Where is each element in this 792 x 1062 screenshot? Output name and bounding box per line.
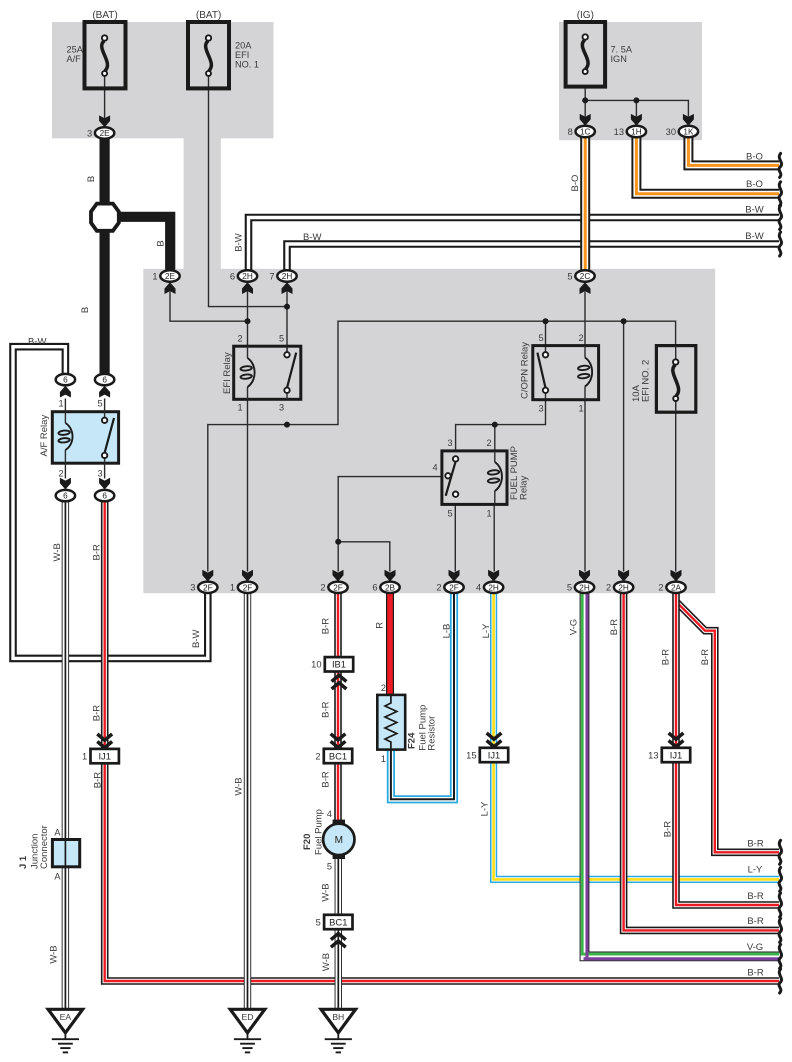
wire R from 6 2B to resistor — [386, 593, 394, 696]
connector A/F relay top-right 6 — [95, 374, 114, 385]
svg-text:B-R: B-R — [747, 839, 764, 850]
junction connector J1 — [18, 825, 80, 881]
wire B-R branch from 2 2A to right edge — [677, 603, 779, 853]
fuse 20A EFI NO. 1 — [188, 10, 259, 88]
junction block 2 BC1 — [315, 749, 352, 763]
svg-text:1: 1 — [58, 399, 63, 409]
svg-text:B-R: B-R — [91, 705, 102, 722]
svg-text:BH: BH — [332, 1012, 344, 1022]
svg-text:NO. 1: NO. 1 — [235, 60, 259, 70]
wire B-R from 2 2F to fuel pump — [334, 593, 342, 821]
svg-text:2H: 2H — [242, 272, 253, 281]
svg-text:1K: 1K — [683, 128, 694, 137]
wire W-B from 1 2F to ground ED — [244, 593, 251, 1009]
junction block 15 IJ1 — [466, 748, 508, 762]
wire V-G from 5 2H to right edge — [582, 593, 779, 959]
svg-text:5: 5 — [447, 509, 452, 519]
svg-text:2: 2 — [237, 334, 242, 344]
svg-text:B-R: B-R — [661, 649, 672, 666]
wire B-R from A-F relay pin 3 to right edge — [105, 502, 779, 982]
svg-text:EFI Relay: EFI Relay — [222, 352, 233, 394]
svg-text:IJ1: IJ1 — [488, 749, 501, 760]
svg-text:3: 3 — [190, 583, 195, 593]
wire B-R from 2 2H to right edge — [624, 593, 779, 930]
svg-text:1: 1 — [486, 509, 491, 519]
connector 2 2F — [436, 582, 463, 593]
svg-text:IJ1: IJ1 — [670, 749, 683, 760]
svg-text:W-B: W-B — [321, 953, 332, 971]
svg-text:2: 2 — [578, 333, 583, 343]
wire break at right edge y=956.4 — [779, 944, 781, 968]
fuse 10A EFI NO. 2 — [631, 346, 696, 413]
wire L-Y from 4 2H to right edge — [494, 593, 779, 879]
svg-text:1: 1 — [381, 754, 386, 764]
svg-text:(BAT): (BAT) — [92, 10, 117, 21]
svg-text:10: 10 — [311, 660, 321, 670]
svg-text:B-W: B-W — [28, 337, 47, 348]
connector A/F relay bottom-right 6 — [95, 490, 114, 501]
wire B from 3 2E to octagon splice — [99, 139, 109, 206]
svg-text:B-W: B-W — [745, 231, 764, 242]
svg-text:EFI NO. 2: EFI NO. 2 — [641, 360, 652, 402]
connector 1 2E — [152, 270, 179, 281]
wire B-O from 8 1C to 5 2C — [580, 137, 590, 270]
svg-text:2C: 2C — [580, 272, 591, 281]
connector 4 2H — [476, 582, 503, 593]
shaded harness area top-left — [52, 22, 274, 138]
svg-text:B-W: B-W — [303, 232, 322, 243]
shaded harness strip — [184, 138, 221, 270]
svg-text:B-R: B-R — [609, 619, 620, 636]
wire fuel pump relay pin 4 to 2 2F and 6 2B — [338, 477, 442, 572]
C/OPN relay — [520, 333, 599, 414]
svg-text:3: 3 — [447, 438, 452, 448]
junction node EFI relay pin3 out — [284, 422, 290, 428]
svg-text:A: A — [54, 828, 61, 838]
svg-text:6: 6 — [63, 492, 68, 501]
junction block 13 IJ1 — [648, 748, 690, 762]
svg-text:IB1: IB1 — [332, 659, 346, 670]
wire 1 2E to EFI relay pin 2 node — [170, 292, 248, 322]
wire B-O from 30 1K to right edge — [688, 137, 779, 165]
svg-text:B: B — [155, 240, 166, 246]
svg-text:L-Y: L-Y — [479, 801, 490, 816]
connector 30 1K — [666, 126, 698, 137]
wire 7 2H to EFI relay pin 5 — [286, 283, 288, 355]
wire break at right edge y=217.5 — [779, 206, 781, 230]
svg-text:V-G: V-G — [569, 619, 580, 635]
A/F relay — [39, 399, 119, 479]
connector 5 2C — [567, 270, 594, 281]
svg-text:W-B: W-B — [52, 543, 63, 561]
junction node 2 2H tap — [621, 318, 627, 324]
svg-text:2H: 2H — [579, 583, 590, 592]
connector 1 2F — [230, 582, 257, 593]
svg-text:3: 3 — [279, 403, 284, 413]
svg-text:5: 5 — [279, 334, 284, 344]
wire break at right edge y=981 — [779, 969, 781, 993]
svg-text:L-B: L-B — [442, 624, 453, 639]
wire C-OPN relay pin 5 stub — [545, 321, 547, 352]
svg-text:(IG): (IG) — [577, 10, 594, 21]
junction block 10 IB1 — [311, 657, 353, 671]
wire EFI relay pin 1 to 1 2F — [247, 399, 249, 571]
svg-text:1C: 1C — [580, 128, 591, 137]
svg-text:2: 2 — [658, 583, 663, 593]
svg-text:2E: 2E — [100, 129, 111, 138]
wire 10A fuse to 2 2A — [675, 401, 677, 572]
svg-text:1: 1 — [152, 271, 157, 281]
junction node fuel pump relay pin2 tap — [492, 422, 498, 428]
svg-text:M: M — [335, 835, 343, 846]
svg-text:V-G: V-G — [747, 942, 763, 953]
wire fuel pump relay pin 5 to 2 2F — [454, 504, 456, 571]
svg-text:7. 5A: 7. 5A — [611, 45, 633, 55]
svg-text:A/F: A/F — [67, 54, 82, 64]
svg-text:3: 3 — [87, 128, 92, 138]
svg-text:2H: 2H — [618, 583, 629, 592]
svg-text:B-R: B-R — [747, 968, 764, 979]
svg-text:C/OPN Relay: C/OPN Relay — [520, 342, 531, 399]
svg-text:B-W: B-W — [745, 205, 764, 216]
svg-text:1: 1 — [82, 752, 87, 762]
svg-text:2: 2 — [320, 583, 325, 593]
svg-text:1: 1 — [237, 403, 242, 413]
wire 6 2H to EFI relay pin 2 — [247, 283, 249, 346]
svg-text:25A: 25A — [67, 45, 84, 55]
junction node EFI relay pin5 feed — [284, 304, 290, 310]
svg-text:B-R: B-R — [700, 649, 711, 666]
svg-text:Connector: Connector — [39, 825, 50, 869]
svg-text:F24: F24 — [407, 732, 418, 749]
wire C-OPN relay pin 3 to fuel pump relay — [456, 393, 546, 451]
wire B-W from 7 2H to right edge — [287, 244, 779, 270]
wire 5 2C through C-OPN relay coil to 5 2H — [584, 292, 586, 572]
svg-text:2F: 2F — [449, 583, 459, 592]
svg-text:2B: 2B — [385, 583, 396, 592]
connector 6 2B — [372, 582, 399, 593]
svg-text:B-O: B-O — [746, 179, 763, 190]
connector 7 2H — [269, 270, 296, 281]
wire fuse 25A to 3 2E — [104, 76, 106, 127]
shaded harness area ECU — [143, 269, 715, 593]
svg-text:B: B — [80, 307, 91, 313]
svg-text:6: 6 — [372, 583, 377, 593]
svg-text:5: 5 — [316, 917, 321, 927]
wire B-W from 3 2F to A-F relay pin 1 — [13, 347, 208, 659]
svg-text:2F: 2F — [203, 583, 213, 592]
connector 8 1C — [568, 126, 595, 137]
svg-text:B-R: B-R — [92, 772, 103, 789]
connector 6 2H — [230, 270, 257, 281]
svg-text:1: 1 — [230, 583, 235, 593]
junction block 5 BC1 — [316, 915, 353, 929]
wire fuel pump relay pin 1 to 4 2H — [493, 504, 495, 571]
connector 2 2A — [658, 582, 685, 593]
svg-text:R: R — [375, 622, 386, 629]
motor F20 fuel pump — [302, 809, 354, 872]
wire B-O from 13 1H to right edge — [636, 137, 779, 194]
svg-text:IJ1: IJ1 — [98, 751, 111, 762]
svg-text:Fuel Pump: Fuel Pump — [314, 809, 325, 855]
wire W-B from fuel pump to ground BH — [335, 858, 342, 1010]
svg-text:2: 2 — [381, 683, 386, 693]
svg-text:BC1: BC1 — [329, 750, 347, 761]
wire break at right edge y=244 — [779, 232, 781, 256]
wire EFI relay pin 3 to bus and 3 2F — [208, 321, 676, 571]
wire fuse 20A to EFI relay pin 5 — [209, 76, 288, 307]
svg-text:7: 7 — [269, 271, 274, 281]
svg-text:6: 6 — [102, 376, 107, 385]
svg-text:2: 2 — [436, 583, 441, 593]
svg-text:F20: F20 — [302, 834, 313, 850]
svg-text:2: 2 — [315, 751, 320, 761]
svg-text:ED: ED — [242, 1012, 254, 1022]
svg-text:EFI: EFI — [235, 50, 249, 60]
svg-text:B-R: B-R — [320, 701, 331, 718]
svg-text:6: 6 — [230, 271, 235, 281]
EFI relay — [222, 334, 301, 413]
svg-text:1H: 1H — [631, 128, 642, 137]
svg-text:6: 6 — [102, 492, 107, 501]
svg-text:4: 4 — [476, 583, 481, 593]
wire break at right edge y=165.4 — [779, 153, 781, 177]
wire B-R from 2 2A through IJ1 to right edge — [676, 593, 779, 905]
svg-text:30: 30 — [666, 127, 676, 137]
wire W-B from A-F relay pin 2 to ground EA — [62, 502, 69, 1010]
svg-text:5: 5 — [97, 399, 102, 409]
svg-text:A: A — [54, 872, 61, 882]
connector 5 2H — [567, 582, 594, 593]
connector A/F relay top-left 6 — [56, 374, 75, 385]
svg-text:B-O: B-O — [570, 175, 581, 192]
svg-text:B-W: B-W — [191, 630, 202, 649]
ground BH — [321, 1009, 356, 1052]
svg-text:2A: 2A — [671, 583, 682, 592]
svg-text:B-W: B-W — [233, 233, 244, 252]
svg-text:(BAT): (BAT) — [196, 10, 221, 21]
svg-text:13: 13 — [614, 127, 624, 137]
svg-text:L-Y: L-Y — [748, 865, 763, 876]
wire B-W from 6 2H to right edge — [249, 218, 780, 271]
svg-text:B-R: B-R — [747, 891, 764, 902]
wire break at right edge y=879.4 — [779, 867, 781, 891]
svg-text:B-R: B-R — [662, 821, 673, 838]
svg-text:B-O: B-O — [746, 152, 763, 163]
svg-text:3: 3 — [97, 468, 102, 478]
svg-text:W-B: W-B — [48, 945, 59, 963]
svg-text:5: 5 — [327, 862, 332, 872]
connector 13 1H — [614, 126, 646, 137]
svg-text:2H: 2H — [282, 272, 293, 281]
ground ED — [230, 1009, 265, 1052]
svg-text:B: B — [86, 176, 97, 182]
svg-text:B-R: B-R — [320, 771, 331, 788]
svg-text:Resistor: Resistor — [427, 716, 438, 751]
svg-text:Relay: Relay — [519, 475, 530, 500]
connector 2 2H — [606, 582, 633, 593]
svg-text:W-B: W-B — [320, 883, 331, 901]
svg-text:J 1: J 1 — [18, 855, 29, 869]
svg-text:15: 15 — [466, 750, 476, 760]
wire break at right edge y=905 — [779, 893, 781, 917]
svg-text:3: 3 — [538, 404, 543, 414]
wire break at right edge y=930.4 — [779, 918, 781, 942]
svg-text:2: 2 — [58, 468, 63, 478]
wire break at right edge y=852.3 — [779, 840, 781, 864]
svg-text:4: 4 — [432, 462, 437, 472]
svg-text:20A: 20A — [235, 41, 252, 51]
junction block 1 IJ1 — [82, 749, 119, 763]
junction node IG fuse bus mid — [633, 97, 639, 103]
junction node EFI relay pin2 feed — [245, 318, 251, 324]
svg-text:6: 6 — [63, 376, 68, 385]
wire break at right edge y=193.8 — [779, 182, 781, 206]
svg-text:8: 8 — [568, 127, 573, 137]
wire B from octagon splice to A-F relay — [99, 229, 109, 374]
connector 3 2E — [87, 127, 114, 138]
svg-text:13: 13 — [648, 750, 658, 760]
wire bus to 2 2H — [623, 321, 625, 571]
svg-text:A/F Relay: A/F Relay — [39, 415, 50, 457]
svg-text:2E: 2E — [165, 272, 176, 281]
connector A/F relay bottom-left 6 — [56, 490, 75, 501]
svg-text:B-R: B-R — [91, 544, 102, 561]
svg-text:2: 2 — [606, 583, 611, 593]
svg-text:5: 5 — [567, 583, 572, 593]
resistor F24 fuel pump resistor — [377, 683, 437, 764]
fuel pump relay — [432, 438, 529, 519]
svg-text:B-R: B-R — [747, 916, 764, 927]
svg-text:2H: 2H — [488, 583, 499, 592]
junction node C-OPN relay pin5 tap — [543, 318, 549, 324]
svg-text:2: 2 — [486, 438, 491, 448]
octagon splice — [91, 204, 119, 231]
svg-text:2F: 2F — [333, 583, 343, 592]
connector 2 2F — [320, 582, 347, 593]
svg-text:1: 1 — [578, 404, 583, 414]
svg-text:L-Y: L-Y — [481, 623, 492, 638]
junction node IG fuse bus left — [582, 97, 588, 103]
svg-text:W-B: W-B — [233, 777, 244, 795]
svg-text:5: 5 — [567, 271, 572, 281]
fuse 25A A/F — [67, 10, 126, 88]
shaded harness area top-right — [559, 22, 702, 140]
fuse 7.5A IGN — [566, 10, 633, 87]
wire B from octagon splice to 1 2E — [116, 217, 170, 270]
ground EA — [48, 1009, 83, 1052]
wire IG fuse distribution bus — [585, 87, 688, 117]
wire L-B from 2 2F to resistor pin 1 — [391, 593, 454, 799]
svg-text:2F: 2F — [243, 583, 253, 592]
junction node fuel pump relay pin4 split — [335, 539, 341, 545]
svg-text:EA: EA — [60, 1012, 72, 1022]
svg-text:5: 5 — [538, 333, 543, 343]
svg-text:BC1: BC1 — [329, 916, 347, 927]
svg-text:B-R: B-R — [320, 618, 331, 635]
svg-text:4: 4 — [327, 809, 332, 819]
svg-text:IGN: IGN — [611, 54, 627, 64]
connector 3 2F — [190, 582, 217, 593]
